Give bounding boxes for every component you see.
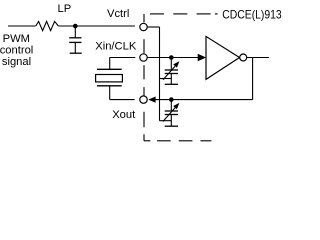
varactor D2 arrow: [163, 103, 180, 122]
capacitor LP (shunt capacitor to ground): [69, 26, 81, 53]
ground (varactor D1 bottom bar): [165, 83, 178, 85]
op-amp U1 oscillator inverter triangle: [206, 36, 240, 79]
label PWM control signal: [0, 33, 33, 68]
arrow inverter input (into oscillator inverter): [198, 54, 206, 62]
wire inverter output stub: [247, 57, 269, 59]
varactor D1 arrow: [163, 61, 180, 80]
pin Vctrl terminal circle: [140, 23, 147, 30]
svg-text:Xin/CLK: Xin/CLK: [95, 40, 137, 52]
node varactor D2 top junction: [169, 97, 174, 102]
wire Vctrl tap to varactor D2: [160, 120, 172, 122]
node varactor D1 top junction: [169, 55, 174, 60]
crystal Y1 top lead: [109, 58, 111, 70]
crystal Y1 body: [96, 75, 123, 82]
crystal Y1 bottom plate: [97, 85, 122, 87]
wire chip boundary dashed bottom edge: [144, 140, 211, 142]
wire chip boundary dashed top edge: [150, 13, 218, 15]
wire Vctrl tap to varactor D1: [160, 78, 172, 80]
node LP filter junction: [73, 24, 78, 29]
wire Xin internal line to inverter input: [147, 57, 199, 59]
crystal Y1 top plate: [97, 68, 122, 70]
svg-text:LP: LP: [58, 3, 72, 15]
wire Xout internal line to feedback: [155, 99, 253, 101]
wire crystal to Xout pin: [110, 99, 135, 101]
crystal Y1 bottom lead: [109, 86, 111, 100]
ground (LP capacitor ground bar): [70, 52, 82, 54]
svg-text:Xout: Xout: [112, 109, 136, 121]
wire Vctrl pin to internal vertical rail: [147, 26, 159, 28]
inverter U1 output bubble: [240, 54, 247, 61]
wire feedback inverter output down to Xout line: [252, 58, 254, 100]
wire Xin pin to crystal: [110, 57, 136, 59]
pin Xout terminal circle: [140, 96, 147, 103]
wire resistor to Vctrl pin: [58, 25, 134, 27]
pin Xin/CLK terminal circle: [140, 54, 147, 61]
svg-text:PWM: PWM: [3, 33, 30, 45]
resistor LP (low-pass filter series resistor): [36, 21, 59, 30]
wire input lead from PWM source: [8, 25, 36, 27]
wire Vctrl vertical rail: [159, 27, 161, 121]
wire chip boundary dashed vertical: [143, 14, 145, 141]
svg-text:signal: signal: [2, 56, 31, 68]
ground (varactor D2 bottom bar): [165, 125, 178, 127]
varactor D2: [165, 100, 178, 127]
svg-text:control: control: [0, 44, 33, 56]
arrow feedback into Xout pin: [148, 97, 155, 103]
varactor D1: [165, 58, 178, 85]
svg-text:CDCE(L)913: CDCE(L)913: [222, 7, 282, 21]
svg-text:Vctrl: Vctrl: [107, 8, 129, 20]
